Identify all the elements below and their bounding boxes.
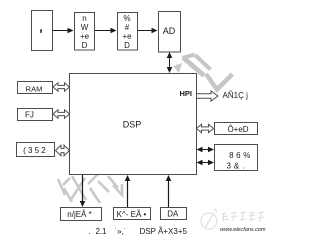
open arrow HPI out	[197, 91, 219, 101]
box 86	[215, 145, 258, 171]
box 352	[17, 143, 55, 157]
tiny mark inside B1	[40, 29, 42, 33]
wire arrow K box up to DSP	[125, 175, 131, 208]
box B2	[75, 13, 95, 51]
svg-text:www.elecfans.com: www.elecfans.com	[220, 227, 266, 233]
watermark small arrow mark	[173, 63, 182, 73]
svg-text:AD: AD	[163, 26, 176, 36]
wire arrow B2 to B3	[95, 28, 117, 34]
svg-text:DA: DA	[167, 210, 179, 219]
open double arrow 352 to DSP	[56, 145, 70, 156]
open double arrow DSP to OeD	[197, 124, 214, 132]
box NJ output	[61, 208, 102, 221]
svg-text:#: #	[125, 23, 130, 32]
svg-text:3&.: 3&.	[226, 162, 247, 171]
watermark top-right gray logo	[183, 55, 233, 90]
svg-text:AÑ1Ç j: AÑ1Ç j	[223, 91, 249, 100]
wire double arrow AD to DSP	[167, 52, 173, 73]
filled double arrow DSP-86 upper	[197, 147, 215, 153]
open double arrow RAM to DSP	[53, 83, 70, 91]
svg-text:RAM: RAM	[26, 85, 43, 94]
box B3	[118, 13, 138, 51]
filled double arrow DSP-86 lower	[197, 160, 215, 166]
box FJ	[18, 109, 53, 121]
watermark bottom-left gray strokes	[58, 174, 122, 203]
svg-text:n/jEÅ *: n/jEÅ *	[67, 210, 91, 219]
svg-text:n: n	[82, 14, 86, 23]
svg-text:DSP Ã+X3+5: DSP Ã+X3+5	[140, 227, 188, 236]
svg-text:W: W	[81, 23, 89, 32]
wire arrow DSP down to NJ box	[80, 175, 86, 207]
box K input	[114, 208, 151, 220]
svg-text:+e: +e	[80, 32, 90, 41]
svg-text:D: D	[82, 41, 88, 50]
svg-text:Ô+eD: Ô+eD	[227, 125, 248, 134]
open double arrow FJ to DSP	[53, 110, 70, 118]
wire arrow B1 to B2	[53, 28, 74, 34]
svg-text:˙»,˙: ˙»,˙	[115, 227, 127, 236]
box DA converter	[161, 208, 187, 220]
box B1 (empty input block)	[32, 11, 53, 51]
svg-text:+e: +e	[122, 32, 132, 41]
svg-text:K^- EÃ •: K^- EÃ •	[117, 210, 147, 219]
box OeD	[215, 123, 258, 135]
svg-text:%: %	[123, 14, 130, 23]
svg-text:FJ: FJ	[25, 111, 34, 120]
wire arrow DA up to DSP	[166, 175, 172, 208]
svg-text:(352: (352	[23, 146, 48, 155]
svg-text:2.1: 2.1	[96, 227, 108, 236]
svg-text:HPI: HPI	[180, 89, 193, 98]
box RAM	[18, 82, 53, 94]
svg-text:86%: 86%	[229, 151, 253, 160]
watermark elecfans logo bottom-right	[201, 209, 217, 229]
svg-text:DSP: DSP	[123, 120, 142, 130]
box DSP main	[70, 74, 197, 175]
svg-text:.: .	[89, 227, 91, 236]
wire arrow B3 to AD	[138, 28, 158, 34]
watermark chinese squiggles	[221, 212, 264, 221]
svg-text:D: D	[124, 41, 130, 50]
box AD converter	[159, 12, 181, 53]
